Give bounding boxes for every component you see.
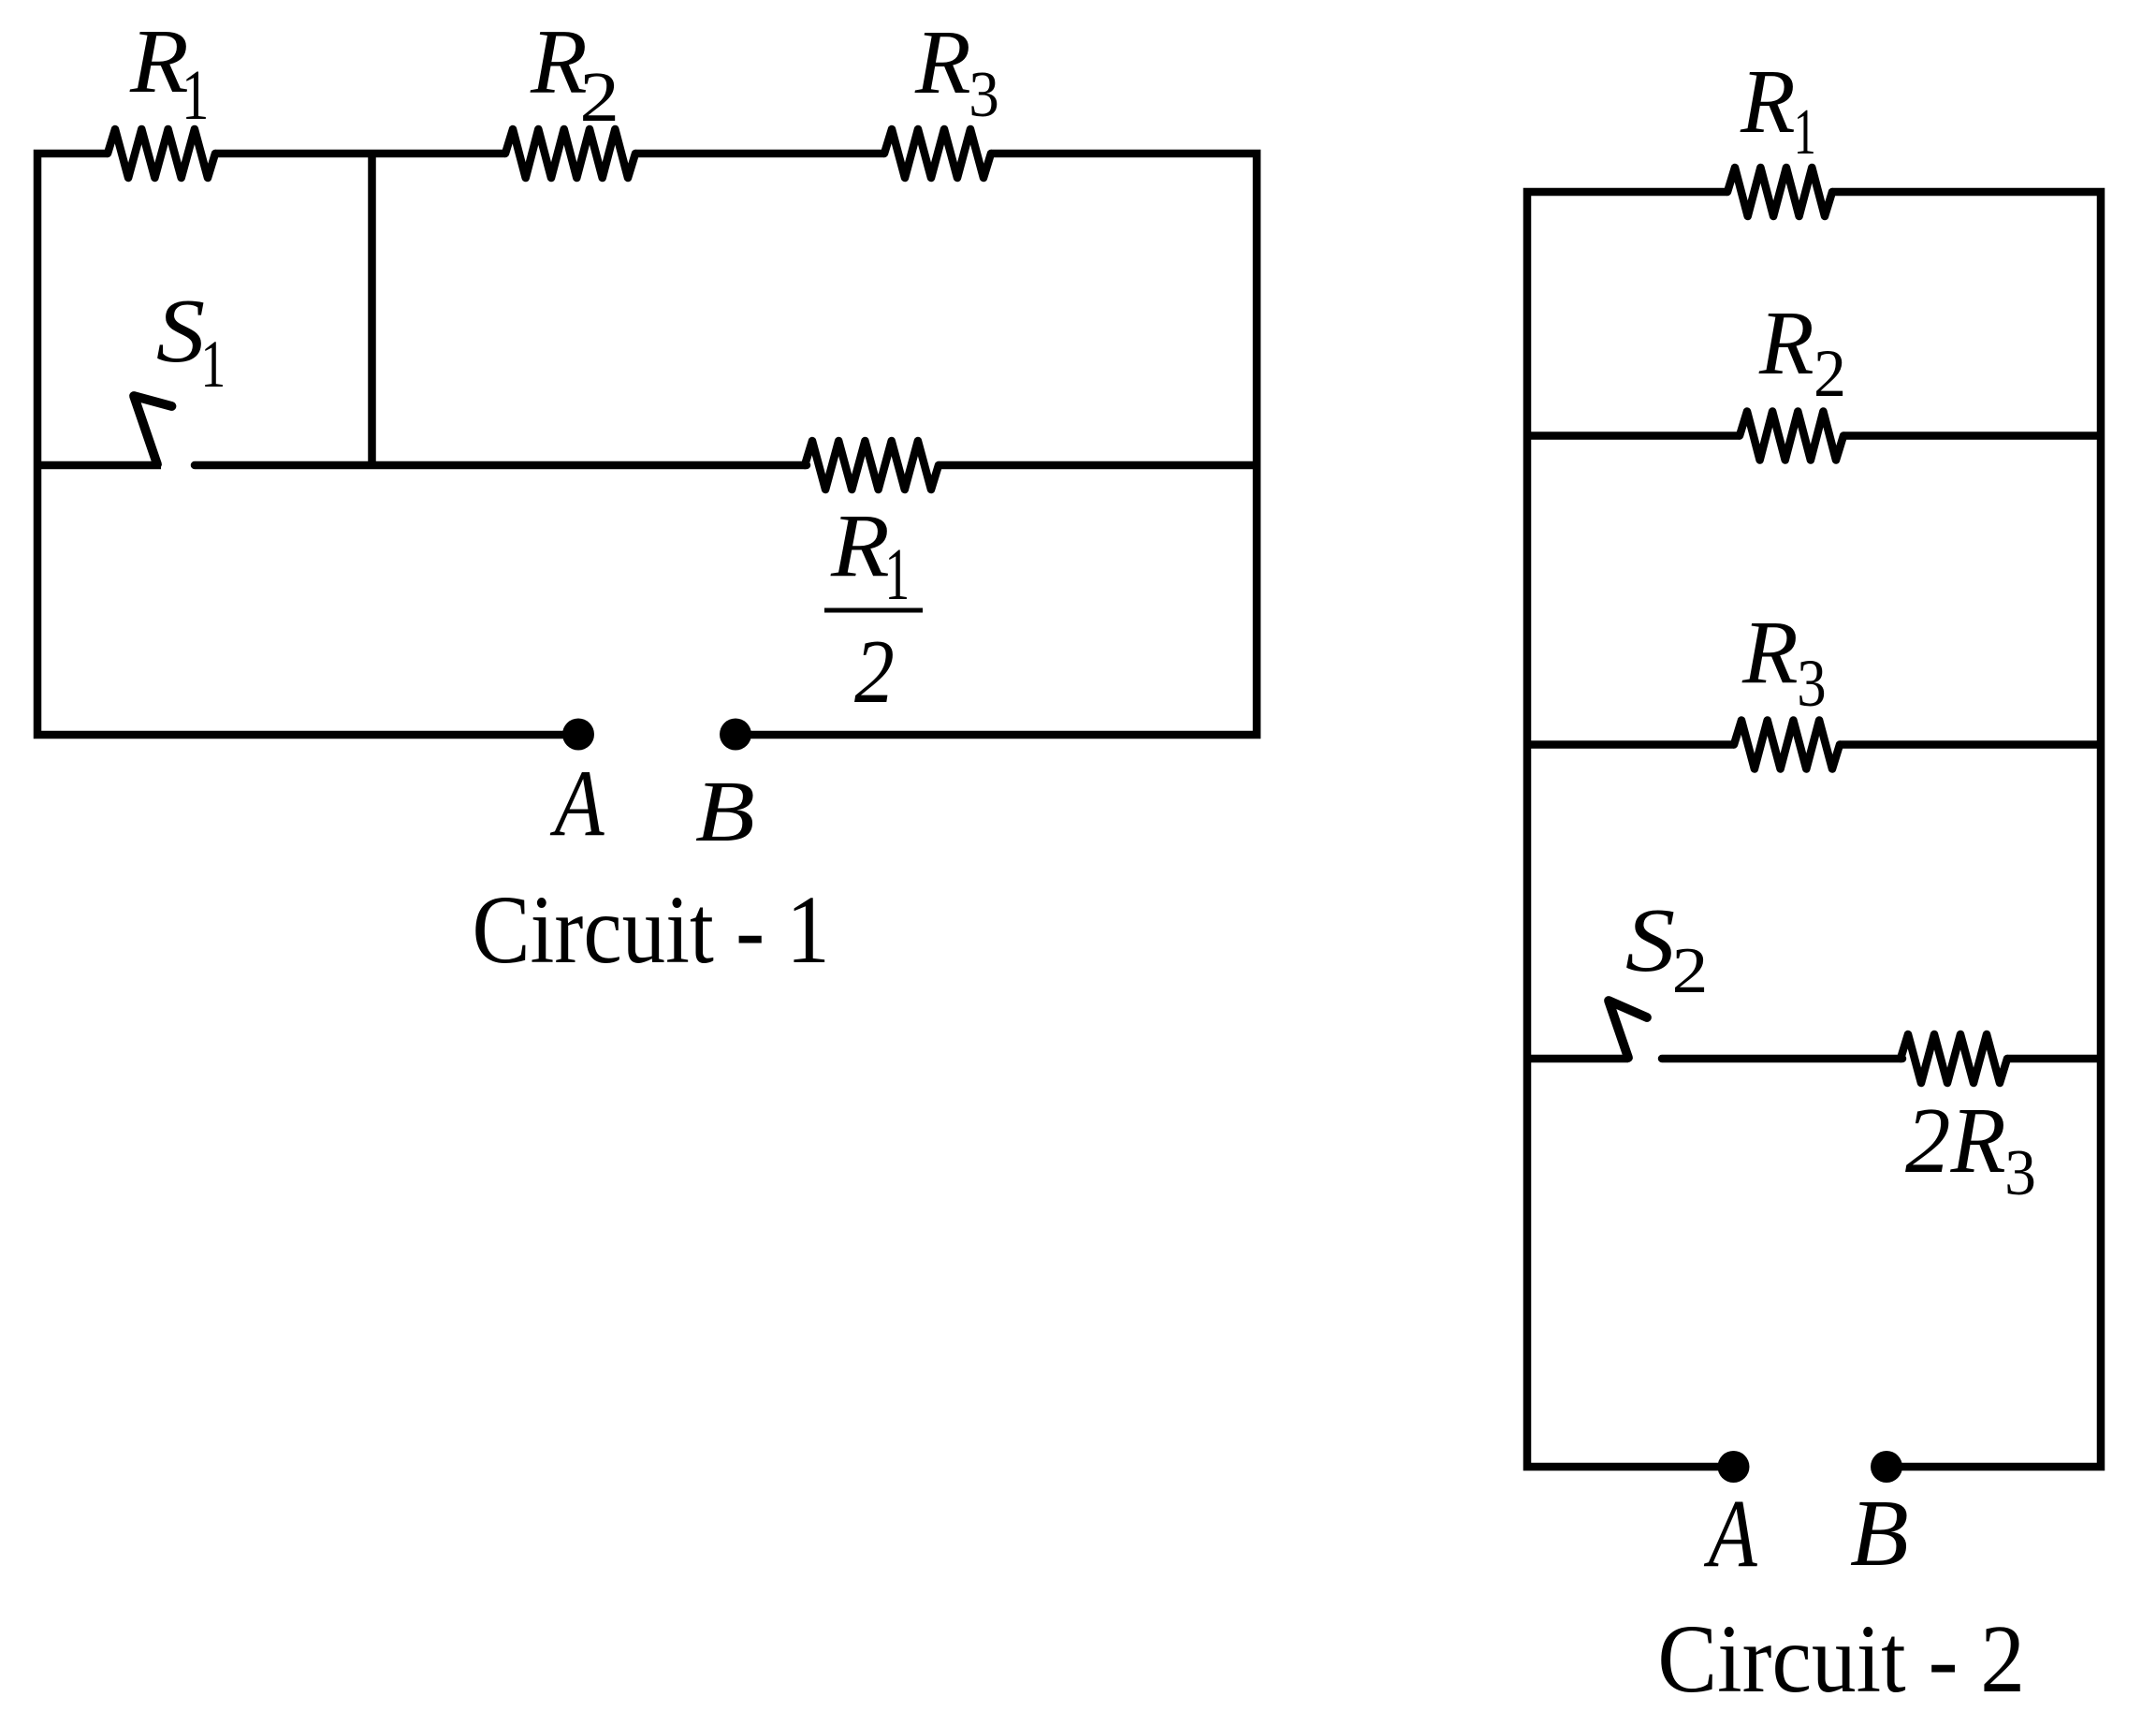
label R1 (circuit 1) subscript 1	[182, 55, 209, 135]
label S2 (circuit 2) subscript 2	[1672, 933, 1709, 1006]
label R3 (circuit 2) letter R	[1741, 603, 1799, 702]
svg-text:1: 1	[884, 534, 910, 616]
svg-text:R: R	[1741, 603, 1799, 702]
wire: circuit-2 S2 rung middle segment	[1662, 1055, 1902, 1063]
wire: circuit-2 right rail with top-right and bottom-right corners	[1832, 192, 2101, 1467]
label S1 (circuit 1) subscript 1	[200, 327, 226, 401]
wire: circuit-1 top segment between R1 and R2	[215, 150, 505, 158]
svg-text:Circuit - 2: Circuit - 2	[1657, 1605, 2025, 1713]
label node A (circuit 1)	[549, 750, 605, 856]
resistor R1 (circuit 1)	[108, 129, 215, 178]
caption Circuit - 2	[1657, 1605, 2025, 1713]
svg-text:R: R	[1740, 51, 1796, 152]
wire: circuit-1 right rail with bottom-right and top-right corners	[750, 154, 1257, 735]
label R3 (circuit 1) letter R	[914, 12, 971, 113]
caption Circuit - 1	[472, 876, 829, 984]
value label 2R3 (circuit 2) subscript 3	[2004, 1136, 2036, 1208]
label R3 (circuit 1) subscript 3	[969, 58, 999, 131]
resistor 2R3 (circuit 2)	[1901, 1034, 2007, 1083]
value label R1/2 denominator 2	[854, 621, 895, 722]
wire: circuit-2 left rail with top-left and bottom-left corners	[1527, 192, 1727, 1467]
wire: circuit-2 R3 rung left segment	[1527, 740, 1734, 749]
svg-text:R: R	[914, 12, 971, 113]
label R1 (circuit 2) letter R	[1740, 51, 1796, 152]
node B terminal dot (circuit 2)	[1871, 1451, 1902, 1483]
wire: circuit-1 left rail with top-left and bottom-left corners	[37, 154, 564, 735]
wire: circuit-1 middle wire left of switch S1	[37, 461, 161, 470]
label node B (circuit 2)	[1850, 1481, 1909, 1586]
svg-text:B: B	[1850, 1481, 1909, 1586]
svg-text:A: A	[1703, 1479, 1757, 1587]
svg-text:R: R	[1758, 292, 1814, 393]
switch S1 blade and barb	[134, 396, 172, 464]
wire: circuit-1 junction vertical between R1 and R2	[368, 150, 376, 465]
label node A (circuit 2)	[1703, 1479, 1757, 1587]
wire: circuit-2 R2 rung left segment	[1527, 431, 1740, 440]
svg-text:S: S	[1625, 890, 1675, 991]
label S1 (circuit 1) letter S	[156, 280, 205, 381]
node B terminal dot (circuit 1)	[720, 719, 751, 751]
wire: circuit-2 R2 rung right segment	[1843, 431, 2101, 440]
svg-text:3: 3	[2004, 1136, 2036, 1208]
resistor R1 (circuit 2)	[1727, 168, 1832, 216]
label R2 (circuit 1) letter R	[530, 11, 588, 113]
switch S2 blade and barb	[1609, 1001, 1647, 1058]
svg-text:1: 1	[200, 327, 226, 401]
svg-text:Circuit - 1: Circuit - 1	[472, 876, 829, 984]
label S2 (circuit 2) letter S	[1625, 890, 1675, 991]
wire: circuit-2 S2 rung left segment	[1527, 1055, 1628, 1063]
wire: circuit-2 R3 rung right segment	[1840, 740, 2101, 749]
svg-text:R: R	[830, 495, 890, 595]
label R3 (circuit 2) subscript 3	[1797, 646, 1826, 721]
value label R1/2 numerator R	[830, 495, 890, 595]
svg-text:2R: 2R	[1905, 1089, 2006, 1192]
resistor R1/2 (circuit 1)	[805, 441, 939, 490]
resistor R3 (circuit 1)	[884, 129, 991, 178]
wire: circuit-1 middle wire right of switch S1	[195, 461, 807, 470]
value label R1/2 fraction bar	[824, 608, 923, 613]
label R2 (circuit 2) subscript 2	[1814, 337, 1846, 411]
label R2 (circuit 2) letter R	[1758, 292, 1814, 393]
resistor R3 (circuit 2)	[1734, 721, 1840, 769]
wire: circuit-1 top segment between R2 and R3	[635, 150, 884, 158]
label R2 (circuit 1) subscript 2	[579, 58, 619, 137]
svg-text:3: 3	[1797, 646, 1826, 721]
value label 2R3 (circuit 2) 2R	[1905, 1089, 2006, 1192]
value label R1/2 numerator subscript 1	[884, 534, 910, 616]
label R1 (circuit 2) subscript 1	[1794, 95, 1816, 168]
svg-text:3: 3	[969, 58, 999, 131]
svg-text:A: A	[549, 750, 605, 856]
svg-text:2: 2	[1672, 933, 1709, 1006]
svg-text:2: 2	[1814, 337, 1846, 411]
svg-text:R: R	[129, 10, 189, 111]
svg-text:B: B	[695, 764, 755, 859]
svg-text:1: 1	[182, 55, 209, 135]
resistor R2 (circuit 2)	[1740, 412, 1843, 461]
node A terminal dot (circuit 2)	[1718, 1451, 1750, 1483]
label R1 (circuit 1) letter R	[129, 10, 189, 111]
svg-text:1: 1	[1794, 95, 1816, 168]
svg-text:S: S	[156, 280, 205, 381]
label node B (circuit 1)	[695, 764, 755, 859]
svg-text:2: 2	[854, 621, 895, 722]
svg-text:2: 2	[579, 58, 619, 137]
wire: circuit-2 S2 rung right segment	[2007, 1055, 2101, 1063]
resistor R2 (circuit 1)	[505, 129, 635, 178]
node A terminal dot (circuit 1)	[562, 719, 594, 751]
wire: circuit-1 middle wire right of R1/2 to right rail	[939, 461, 1260, 470]
